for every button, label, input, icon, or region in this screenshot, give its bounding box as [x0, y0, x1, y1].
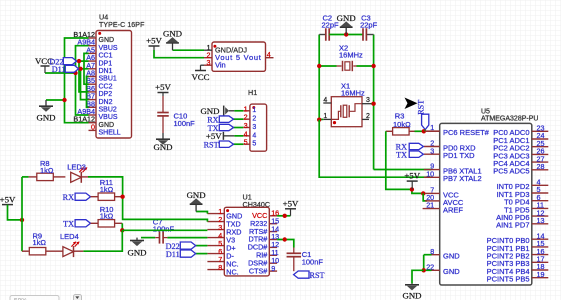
svg-text:U4: U4: [99, 13, 108, 22]
svg-text:DP2: DP2: [99, 91, 113, 98]
svg-text:PCINT5 PB5: PCINT5 PB5: [487, 275, 530, 284]
svg-text:5: 5: [252, 141, 256, 148]
svg-text:AREF: AREF: [443, 206, 463, 215]
svg-text:VCC: VCC: [191, 72, 209, 82]
svg-text:3: 3: [252, 124, 256, 131]
svg-text:GND: GND: [443, 267, 460, 276]
svg-text:1: 1: [252, 107, 256, 114]
svg-text:SHELL: SHELL: [99, 130, 121, 137]
svg-text:GND: GND: [99, 122, 115, 129]
svg-text:16MHz: 16MHz: [341, 88, 365, 97]
svg-text:1kΩ: 1kΩ: [33, 238, 47, 247]
svg-text:NC.: NC.: [226, 268, 238, 277]
svg-text:22pF: 22pF: [360, 20, 378, 29]
svg-text:CC1: CC1: [99, 53, 113, 60]
svg-text:1kΩ: 1kΩ: [40, 166, 54, 175]
svg-text:TX: TX: [396, 150, 407, 159]
svg-text:100nF: 100nF: [302, 257, 324, 266]
svg-text:VBUS: VBUS: [99, 45, 118, 52]
svg-text:9: 9: [271, 264, 275, 273]
svg-text:RST: RST: [204, 141, 219, 150]
svg-text:16MHz: 16MHz: [339, 51, 363, 60]
svg-text:2: 2: [366, 113, 370, 120]
svg-text:SBU1: SBU1: [99, 76, 117, 83]
svg-text:H1: H1: [248, 88, 257, 97]
svg-text:GND: GND: [127, 247, 146, 257]
svg-text:RST: RST: [416, 100, 425, 115]
svg-text:DN1: DN1: [99, 68, 113, 75]
svg-text:13: 13: [537, 216, 545, 225]
svg-text:4: 4: [323, 97, 327, 104]
svg-text:4: 4: [267, 50, 271, 59]
svg-text:GND: GND: [187, 190, 206, 200]
svg-text:TYPE-C 16PF: TYPE-C 16PF: [99, 22, 144, 29]
svg-text:LED4: LED4: [60, 232, 79, 241]
svg-text:1: 1: [323, 113, 327, 120]
svg-text:+5V: +5V: [146, 36, 162, 46]
svg-text:3: 3: [207, 58, 211, 67]
svg-text:SBU2: SBU2: [99, 107, 117, 114]
svg-text:DN2: DN2: [99, 99, 113, 106]
svg-text:1kΩ: 1kΩ: [100, 185, 114, 194]
svg-text:+5V: +5V: [404, 171, 420, 181]
svg-text:RST: RST: [310, 271, 325, 280]
svg-text:GND: GND: [443, 252, 460, 261]
svg-text:GND: GND: [163, 29, 182, 39]
svg-text:2: 2: [252, 116, 256, 123]
svg-text:+5V: +5V: [283, 198, 299, 208]
svg-text:PB7 XTAL2: PB7 XTAL2: [443, 174, 482, 183]
svg-text:GND: GND: [402, 290, 421, 300]
svg-text:5: 5: [244, 138, 248, 147]
svg-text:100nF: 100nF: [174, 119, 196, 128]
svg-text:TX: TX: [63, 220, 74, 229]
svg-text:8: 8: [218, 263, 222, 272]
svg-text:LED3: LED3: [67, 163, 86, 172]
svg-text:DP1: DP1: [99, 60, 113, 67]
svg-text:Vin: Vin: [215, 60, 226, 69]
svg-text:28: 28: [537, 162, 545, 171]
svg-text:GND: GND: [153, 142, 172, 152]
svg-text:1kΩ: 1kΩ: [100, 211, 114, 220]
svg-text:GND: GND: [99, 37, 115, 44]
svg-text:+5V: +5V: [155, 82, 171, 92]
svg-text:22pF: 22pF: [322, 20, 340, 29]
svg-text:+5V: +5V: [0, 195, 16, 205]
svg-text:100nF: 100nF: [153, 224, 175, 233]
svg-text:VBUS: VBUS: [99, 114, 118, 121]
svg-text:PD1 TXD: PD1 TXD: [443, 151, 475, 160]
svg-text:3: 3: [366, 97, 370, 104]
svg-text:AIN1 PD7: AIN1 PD7: [496, 221, 529, 230]
svg-text:GND: GND: [337, 13, 356, 23]
svg-text:CTS#: CTS#: [249, 266, 267, 275]
svg-text:ATMEGA328P-PU: ATMEGA328P-PU: [481, 116, 538, 123]
svg-text:GND: GND: [36, 113, 55, 123]
svg-text:0: 0: [91, 122, 95, 131]
svg-text:CC2: CC2: [99, 83, 113, 90]
svg-text:U5: U5: [481, 108, 490, 115]
svg-text:D11: D11: [52, 65, 66, 74]
svg-text:RX: RX: [63, 193, 74, 202]
svg-text:PC5 ADC5: PC5 ADC5: [493, 167, 529, 176]
svg-text:PC6 RESET#: PC6 RESET#: [443, 128, 490, 137]
svg-text:4: 4: [252, 132, 256, 139]
svg-text:D11: D11: [166, 250, 180, 259]
svg-text:19: 19: [537, 270, 545, 279]
